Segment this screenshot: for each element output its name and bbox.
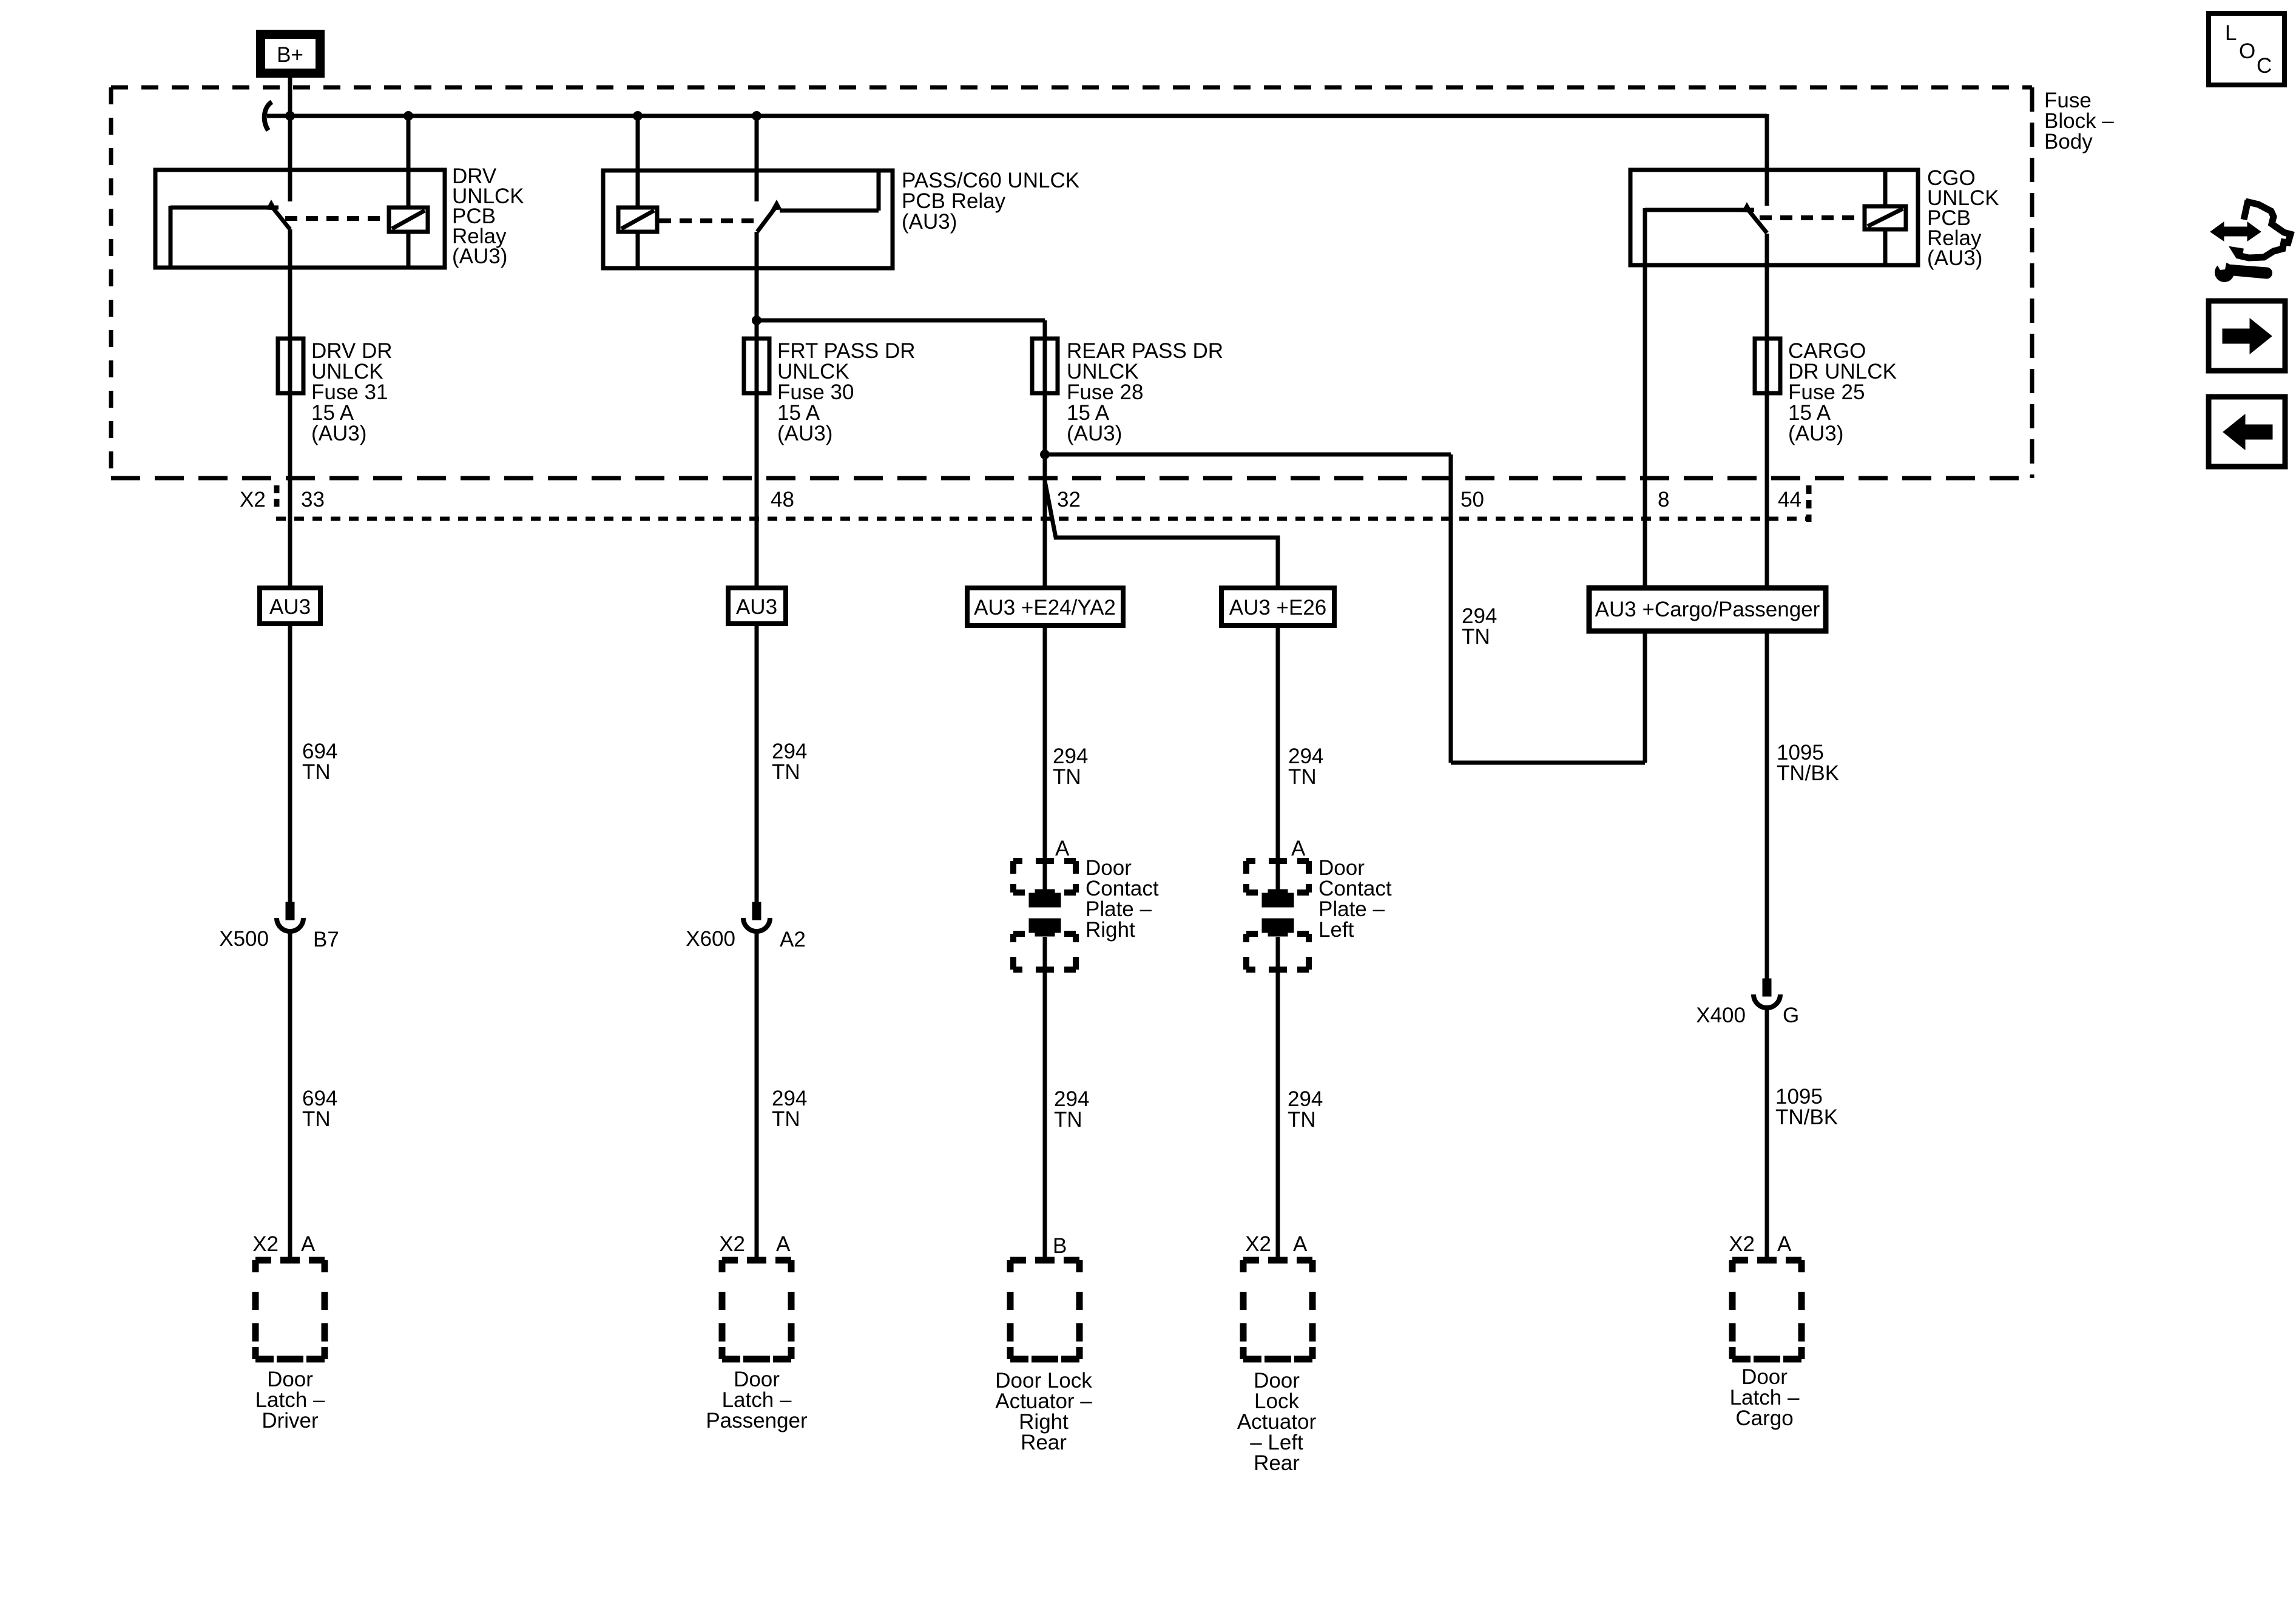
- fuse F28 REAR PASS DR UNLCK: [1032, 339, 1058, 393]
- svg-text:44: 44: [1778, 488, 1801, 511]
- svg-text:(AU3): (AU3): [311, 422, 366, 445]
- connector X500 label: [219, 927, 269, 951]
- junction node relay 2 coil: [633, 111, 643, 121]
- svg-text:(AU3): (AU3): [1927, 246, 1982, 270]
- junction node at B+ drop: [285, 111, 295, 121]
- relay U3 CGO UNLCK PCB Relay box: [1630, 170, 1918, 265]
- wire AU3 +E24/YA2 to contact plate right: [1043, 626, 1047, 893]
- svg-text:AU3: AU3: [736, 595, 777, 619]
- svg-text:TN: TN: [772, 1107, 800, 1131]
- fuse F25 CARGO DR UNLCK: [1755, 339, 1780, 393]
- connector X500 pin label B7: [313, 928, 339, 951]
- svg-text:AU3 +E26: AU3 +E26: [1229, 596, 1327, 619]
- svg-text:(AU3): (AU3): [777, 422, 832, 445]
- pin 33: [301, 488, 325, 511]
- svg-text:X2: X2: [252, 1232, 279, 1256]
- component box door latch - passenger: [722, 1260, 791, 1359]
- svg-text:(AU3): (AU3): [452, 245, 507, 268]
- inline connector X600 pin A2: [743, 902, 770, 931]
- door latch driver label: [255, 1368, 325, 1433]
- svg-text:TN: TN: [1054, 1108, 1082, 1132]
- relay U3 fixed contact bracket: [1645, 208, 1754, 212]
- svg-text:Passenger: Passenger: [706, 1409, 808, 1433]
- wire label 294 TN (right rear lower): [1054, 1087, 1089, 1132]
- connector X600 pin label A2: [780, 928, 806, 951]
- wire label 294 TN (left rear upper): [1288, 744, 1323, 789]
- switch door contact plate - left: [1246, 861, 1309, 970]
- wire pin 8 through cargo box: [1643, 631, 1647, 763]
- pin label A (driver latch): [301, 1232, 316, 1256]
- wire X400 to door latch cargo: [1765, 1006, 1769, 1260]
- wire relay U2 output: [755, 232, 759, 339]
- pin label A (contact plate left): [1291, 837, 1306, 860]
- icon tools wrench: [2215, 258, 2272, 282]
- relay U1 DRV UNLCK PCB Relay box: [155, 170, 445, 268]
- fuse F28 label: [1067, 339, 1223, 445]
- inline connector X400 pin G: [1754, 979, 1780, 1008]
- icon arrow next (right) box: [2209, 301, 2285, 371]
- svg-text:33: 33: [301, 488, 325, 511]
- connector X400 pin label G: [1783, 1004, 1799, 1027]
- wire relay U2 coil: [636, 116, 640, 268]
- relay U3 switch blade: [1746, 208, 1767, 233]
- svg-text:32: 32: [1057, 488, 1081, 511]
- wire fuse 28 down: [1043, 393, 1047, 588]
- relay U1 fixed contact bracket: [171, 206, 279, 268]
- relay U1 label: [452, 164, 524, 268]
- pin label A (passenger latch): [776, 1232, 791, 1256]
- door latch passenger label: [706, 1368, 808, 1433]
- wire relay U2 feed: [755, 116, 759, 201]
- pin 32: [1057, 488, 1081, 511]
- svg-text:TN: TN: [1053, 765, 1081, 789]
- door contact plate right label: [1086, 856, 1159, 942]
- icon arrow previous (left) box: [2209, 397, 2285, 467]
- svg-text:X400: X400: [1696, 1004, 1746, 1027]
- pin 44: [1778, 488, 1801, 511]
- svg-text:X500: X500: [219, 927, 269, 951]
- pin 48: [771, 488, 794, 511]
- pin label X2 (cargo latch): [1729, 1232, 1755, 1256]
- icon LOC reference box: [2209, 13, 2284, 85]
- wire jog to AU3 +E26: [1045, 481, 1278, 588]
- harness box AU3 (driver): [260, 588, 320, 624]
- junction node relay 1 coil: [403, 111, 413, 121]
- svg-text:TN: TN: [1462, 625, 1490, 649]
- connector X2 band right terminator: [1806, 485, 1812, 522]
- wire label 294 TN (passenger upper): [772, 740, 807, 784]
- svg-text:TN/BK: TN/BK: [1777, 761, 1839, 785]
- svg-text:TN: TN: [1288, 765, 1317, 789]
- junction node relay 2 feed: [752, 111, 761, 121]
- component box door latch - cargo: [1732, 1260, 1801, 1359]
- wire AU3 +E26 to contact plate left: [1276, 626, 1280, 893]
- connector X400 label: [1696, 1004, 1746, 1027]
- svg-text:B7: B7: [313, 928, 339, 951]
- pin label X2 (actuator left rear): [1245, 1232, 1271, 1256]
- svg-text:B+: B+: [277, 43, 303, 67]
- svg-text:A2: A2: [780, 928, 806, 951]
- wire label 1095 TN/BK (upper): [1777, 741, 1839, 785]
- junction node fuse 28 branch: [752, 316, 761, 325]
- svg-text:X2: X2: [719, 1232, 745, 1256]
- harness box AU3 +E24/YA2: [967, 588, 1123, 626]
- svg-text:X2: X2: [1729, 1232, 1755, 1256]
- svg-text:Body: Body: [2044, 130, 2093, 154]
- relay U3 coil link dashed: [1760, 215, 1862, 220]
- wire label 1095 TN/BK (lower): [1775, 1085, 1838, 1129]
- svg-text:(AU3): (AU3): [1788, 422, 1843, 445]
- pin label A (contact plate right): [1055, 837, 1070, 860]
- wire label 694 TN (lower): [302, 1087, 337, 1131]
- relay U2 label: [902, 169, 1079, 234]
- door lock actuator right rear label: [995, 1369, 1092, 1454]
- pin label A (actuator left rear): [1293, 1232, 1308, 1256]
- wire fuse 25 to pin 44: [1765, 393, 1769, 588]
- inline connector X500 pin B7: [277, 902, 303, 931]
- fuse F31 label: [311, 339, 393, 445]
- relay U3 switch arrowhead: [1742, 203, 1752, 212]
- wire label 694 TN (upper): [302, 740, 337, 784]
- pin label B (actuator right rear): [1053, 1234, 1067, 1258]
- relay U1 coil link dashed: [285, 216, 387, 221]
- svg-text:(AU3): (AU3): [902, 210, 957, 234]
- wire relay U3 bracket to pin 8: [1643, 208, 1647, 588]
- component box door lock actuator - right rear: [1010, 1260, 1079, 1359]
- relay U3 coil: [1865, 206, 1906, 229]
- wire label 294 TN (pin 50): [1462, 604, 1497, 649]
- relay U3 label: [1927, 166, 1999, 270]
- connector label X2: [240, 488, 266, 511]
- svg-text:AU3: AU3: [269, 595, 311, 619]
- svg-text:B: B: [1053, 1234, 1067, 1258]
- relay U1 coil: [389, 208, 428, 232]
- svg-text:8: 8: [1658, 488, 1669, 511]
- junction node pin 50 branch: [1040, 450, 1050, 459]
- wire fuse 30 to pin 48: [755, 393, 759, 588]
- fuse F30 FRT PASS DR UNLCK: [744, 339, 769, 393]
- relay U2 switch arrowhead: [771, 200, 782, 210]
- svg-text:O: O: [2239, 39, 2255, 63]
- relay U1 switch blade: [271, 205, 290, 229]
- svg-text:TN: TN: [302, 760, 331, 784]
- svg-text:A: A: [1777, 1232, 1792, 1256]
- wire X600 to door latch passenger: [755, 930, 759, 1260]
- svg-text:L: L: [2225, 21, 2237, 45]
- wire AU3 to X500: [288, 624, 292, 902]
- svg-text:A: A: [776, 1232, 791, 1256]
- fuse F30 label: [777, 339, 916, 445]
- svg-text:TN: TN: [772, 760, 800, 784]
- icon tools double arrow: [2210, 222, 2261, 241]
- wire label 294 TN (left rear lower): [1288, 1087, 1323, 1132]
- svg-text:Right: Right: [1086, 918, 1135, 942]
- wire relay U3 coil: [1883, 170, 1888, 265]
- svg-text:A: A: [1055, 837, 1070, 860]
- svg-text:X600: X600: [686, 927, 735, 951]
- svg-text:X2: X2: [240, 488, 266, 511]
- harness box AU3 +Cargo/Passenger: [1589, 588, 1826, 631]
- svg-text:C: C: [2257, 54, 2272, 78]
- wire AU3 to X600: [755, 624, 759, 902]
- svg-text:Cargo: Cargo: [1735, 1406, 1793, 1430]
- svg-text:AU3 +E24/YA2: AU3 +E24/YA2: [974, 596, 1116, 619]
- svg-text:A: A: [1293, 1232, 1308, 1256]
- wire branch to fuse 28: [757, 320, 1045, 339]
- wire label 294 TN (right rear upper): [1053, 744, 1088, 789]
- harness box AU3 +E26: [1221, 588, 1334, 626]
- fuse F25 label: [1788, 339, 1897, 445]
- wire relay U1 coil: [407, 116, 411, 268]
- svg-text:AU3 +Cargo/Passenger: AU3 +Cargo/Passenger: [1595, 598, 1820, 621]
- svg-text:X2: X2: [1245, 1232, 1271, 1256]
- harness box AU3 (passenger): [728, 588, 786, 624]
- svg-text:Left: Left: [1319, 918, 1354, 942]
- wire relay U1 output to fuse 31: [288, 229, 292, 340]
- wire relay U3 output to fuse 25: [1765, 234, 1769, 340]
- svg-text:A: A: [1291, 837, 1306, 860]
- door contact plate left label: [1319, 856, 1392, 942]
- pin label X2 (driver latch): [252, 1232, 279, 1256]
- wire branch to pin 50: [1045, 454, 1451, 763]
- svg-text:A: A: [301, 1232, 316, 1256]
- pin 8: [1658, 488, 1669, 511]
- connector X600 label: [686, 927, 735, 951]
- battery feed B+ terminal: [256, 30, 325, 78]
- icon tools part outline: [2235, 200, 2291, 258]
- wire contact plate left to actuator: [1276, 937, 1280, 1260]
- relay U2 fixed contact bracket: [780, 172, 879, 211]
- svg-text:Driver: Driver: [262, 1409, 319, 1433]
- switch door contact plate - right: [1013, 861, 1076, 970]
- wire pin 44 to X400: [1765, 631, 1769, 979]
- component box door latch - driver: [255, 1260, 325, 1359]
- relay U2 PASS/C60 UNLCK PCB Relay box: [603, 170, 893, 268]
- svg-text:50: 50: [1460, 488, 1484, 511]
- door lock actuator left rear label: [1237, 1369, 1317, 1475]
- pin label A (cargo latch): [1777, 1232, 1792, 1256]
- wire B+ to bus and relay 1 feed: [288, 75, 292, 201]
- fuse block label: [2044, 89, 2114, 154]
- svg-text:Rear: Rear: [1021, 1431, 1067, 1454]
- svg-text:TN: TN: [302, 1107, 331, 1131]
- wire continuation curl: [265, 102, 272, 130]
- door latch cargo label: [1730, 1365, 1800, 1430]
- svg-text:Rear: Rear: [1254, 1451, 1300, 1475]
- component box door lock actuator - left rear: [1243, 1260, 1312, 1359]
- wire B+ bus: [267, 114, 1767, 206]
- connector X2 band left terminator: [274, 485, 280, 510]
- wire X500 to door latch driver: [288, 930, 292, 1260]
- svg-text:TN/BK: TN/BK: [1775, 1105, 1838, 1129]
- pin label X2 (passenger latch): [719, 1232, 745, 1256]
- connector X2 band bottom dotted line: [276, 517, 1809, 521]
- relay U2 coil: [618, 208, 657, 232]
- wire fuse 31 to pin 33: [288, 393, 292, 588]
- pin 50: [1460, 488, 1484, 511]
- relay U2 switch blade: [757, 205, 777, 232]
- fuse block - body dashed outline: [111, 87, 2032, 478]
- wire 294 TN pin 50 to AU3 +Cargo/Passenger: [1451, 631, 1645, 763]
- svg-text:48: 48: [771, 488, 794, 511]
- wire contact plate right to actuator: [1043, 937, 1047, 1260]
- svg-text:TN: TN: [1288, 1108, 1316, 1132]
- relay U1 switch arrowhead: [266, 200, 277, 210]
- relay U2 coil link dashed: [659, 218, 754, 223]
- wire label 294 TN (passenger lower): [772, 1087, 807, 1131]
- fuse F31 DRV DR UNLCK: [278, 339, 303, 393]
- svg-text:(AU3): (AU3): [1067, 422, 1122, 445]
- svg-text:G: G: [1783, 1004, 1799, 1027]
